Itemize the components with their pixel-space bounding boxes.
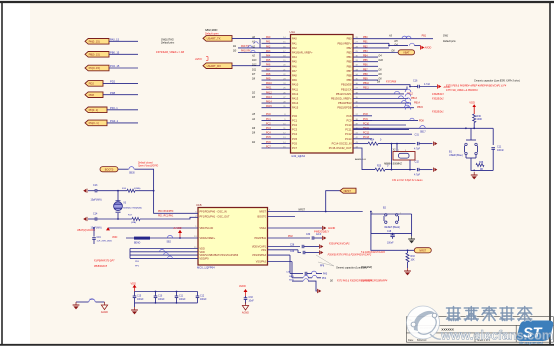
wire vssa agnd [268, 227, 323, 229]
pushbutton B1 [449, 128, 478, 158]
svg-text:F37X PE9 & PA0/PE4+VREF #VREF4: F37X PE9 & PA0/PE4+VREF #VREF4/VB0/VCAP1… [446, 84, 507, 87]
svg-text:PA3/SAR_VREF+: PA3/SAR_VREF+ [292, 51, 313, 55]
svg-text:PA3: PA3 [323, 273, 328, 276]
svg-text:PA15: PA15 [292, 106, 299, 110]
svg-text:PB6: PB6 [347, 64, 352, 68]
wire net PA0..15 [109, 40, 138, 42]
svg-text:PC5: PC5 [292, 137, 298, 141]
svg-text:4.7uF: 4.7uF [424, 83, 431, 86]
svg-text:F373P08: F373P08 [386, 81, 397, 84]
svg-text:PB8: PB8 [347, 74, 352, 78]
ground gnd r33 [404, 268, 411, 275]
svg-text:A2: A2 [251, 45, 256, 48]
svg-text:BEAD: BEAD [134, 241, 141, 244]
svg-text:PC5: PC5 [266, 136, 271, 139]
svg-text:PF[0..1]: PF[0..1] [89, 108, 99, 112]
svg-text:PD1 /PC1/PH1: PD1 /PC1/PH1 [158, 215, 174, 217]
svg-text:A5: A5 [251, 113, 256, 116]
crystal X3 [114, 191, 142, 219]
svg-text:PB15/SPDB: PB15/SPDB [337, 106, 351, 110]
svg-text:AVDD: AVDD [425, 47, 432, 50]
wire PD8 row [353, 119, 418, 121]
wire pd2 row [268, 237, 311, 239]
svg-text:R24: R24 [370, 140, 375, 142]
port connector P1 PA[0..15] [85, 39, 109, 45]
wire net PD8 [103, 94, 138, 96]
svg-text:C15: C15 [137, 295, 142, 297]
svg-text:A0: A0 [251, 36, 256, 39]
svg-text:(N/A): (N/A) [131, 221, 136, 224]
wire boot0 pin stub [268, 216, 296, 218]
svg-text:F302B/Dr1: F302B/Dr1 [432, 111, 444, 114]
svg-text:PB14/PB13: PB14/PB13 [338, 101, 352, 105]
capacitor C19 [92, 227, 112, 244]
svg-text:F302B/Dr3: F302B/Dr3 [432, 93, 444, 96]
svg-text:PC9: PC9 [346, 118, 352, 122]
op IC U1B body [196, 203, 268, 269]
svg-text:C18: C18 [387, 231, 392, 233]
svg-text:0(N/A): 0(N/A) [134, 187, 141, 190]
U1A PC pin wires right [353, 113, 412, 148]
svg-text:VSS: VSS [261, 249, 266, 252]
U1A pin name texts [292, 37, 352, 150]
wire USART_RX to node [232, 65, 260, 67]
svg-text:PB13: PB13 [411, 97, 418, 100]
svg-text:F20X/F42X/VCAP1: F20X/F42X/VCAP1 [329, 242, 350, 245]
svg-text:PB1/VREF+: PB1/VREF+ [337, 41, 352, 45]
svg-text:12nF: 12nF [316, 234, 322, 236]
svg-text:PC10: PC10 [363, 122, 370, 125]
svg-text:C10: C10 [158, 295, 163, 297]
svg-text:PA0: PA0 [266, 36, 271, 39]
svg-text:PC0..15: PC0..15 [110, 64, 120, 68]
svg-text:m32_lqfp64: m32_lqfp64 [291, 154, 306, 158]
svg-text:PC13: PC13 [345, 137, 352, 141]
svg-text:F302B/Dr2: F302B/Dr2 [432, 97, 444, 100]
svg-text:PB0..15: PB0..15 [110, 51, 120, 55]
svg-text:PA13: PA13 [266, 96, 272, 99]
svg-text:VDD: VDD [131, 282, 137, 286]
wire osc out to pin [140, 217, 198, 219]
svg-text:C2B: C2B [286, 271, 291, 273]
svg-text:C12: C12 [200, 295, 205, 297]
svg-text:10pF(N/A): 10pF(N/A) [91, 198, 102, 201]
resistor R24 [368, 142, 378, 145]
resistor R25 [375, 168, 385, 171]
U1A PA pin wires left [251, 36, 291, 108]
wire gnd tie [76, 301, 89, 303]
svg-text:PC8: PC8 [363, 113, 368, 116]
svg-text:PA9: PA9 [292, 78, 297, 82]
ground arrow c32 [434, 168, 438, 172]
power VDD top [469, 100, 476, 114]
capacitor C11 100nF [175, 292, 186, 303]
U1A PC pin wires left [251, 113, 291, 148]
svg-text:PF1/PD1/PH1 - OSC_OUT: PF1/PD1/PH1 - OSC_OUT [200, 216, 230, 219]
svg-text:C30: C30 [306, 234, 311, 236]
svg-text:PC2: PC2 [266, 122, 271, 125]
svg-text:PA2: PA2 [266, 45, 271, 48]
wire hop SB13 [248, 46, 252, 48]
svg-text:PB0: PB0 [363, 36, 368, 39]
ground gnd b2 [411, 234, 413, 236]
svg-text:PC4: PC4 [266, 132, 271, 135]
wire vcap1 row [268, 246, 301, 248]
svg-text:PA7: PA7 [292, 69, 297, 73]
watermark fan logo [407, 306, 442, 339]
capacitor C10 100nF [154, 292, 165, 303]
svg-text:PB11: PB11 [363, 87, 369, 90]
svg-text:VBAT: VBAT [403, 51, 410, 54]
svg-text:VBAT(V)=D/VDD: VBAT(V)=D/VDD [77, 229, 95, 232]
svg-text:PB[0..15]: PB[0..15] [89, 52, 100, 56]
capacitor C12 100nF [196, 292, 207, 303]
svg-text:A+VDD: A+VDD [174, 227, 182, 230]
svg-text:4.7pF: 4.7pF [414, 147, 421, 150]
svg-text:100nF: 100nF [497, 149, 504, 152]
port connector P5 PD8 [85, 92, 103, 98]
svg-text:C32: C32 [415, 160, 420, 163]
svg-text:PA11: PA11 [266, 87, 272, 90]
svg-text:R25: R25 [377, 166, 382, 168]
svg-text:AVDD: AVDD [239, 285, 246, 288]
wire net PC0..15 [109, 67, 138, 69]
svg-text:SB2: SB2 [167, 242, 172, 244]
svg-text:C19: C19 [97, 237, 102, 239]
svg-text:10K: 10K [411, 260, 416, 262]
svg-text:SWJ: SWJ [443, 35, 449, 38]
svg-text:Default pins: Default pins [161, 42, 175, 45]
svg-text:PA10: PA10 [266, 82, 272, 85]
svg-text:PB7: PB7 [363, 68, 368, 71]
svg-text:PA15: PA15 [266, 105, 272, 108]
ferrite bead L1 [134, 237, 150, 240]
svg-text:AGND: AGND [242, 312, 249, 315]
crystal X2 [384, 143, 415, 171]
svg-text:PC12: PC12 [345, 132, 352, 136]
port connector P2 PB[0..15] [85, 52, 109, 58]
svg-text:SB17: SB17 [420, 131, 426, 133]
svg-text:PA1: PA1 [292, 41, 297, 45]
port connector P6 PF[0..1] [85, 107, 107, 113]
svg-text:PA14: PA14 [266, 101, 272, 104]
svg-text:PC8: PC8 [346, 114, 352, 118]
wire net PD2 [103, 82, 138, 84]
svg-text:PB9: PB9 [347, 78, 352, 82]
svg-text:VDD: VDD [469, 100, 475, 104]
svg-text:AVCC: AVCC [194, 57, 202, 61]
svg-text:D12: D12 [252, 64, 257, 67]
svg-text:A4: A4 [251, 118, 256, 121]
svg-text:U1B: U1B [196, 203, 202, 207]
op IC U1A body [290, 30, 354, 158]
svg-text:PA12: PA12 [292, 92, 299, 96]
svg-text:PB8: PB8 [363, 73, 368, 76]
svg-text:PB5: PB5 [347, 60, 352, 64]
wire vcap2 row [268, 249, 299, 251]
wire nrst down [371, 212, 414, 251]
U1A PB pin wires right [353, 35, 433, 109]
svg-text:PB15: PB15 [417, 106, 424, 109]
wire crossover PA10 [238, 52, 291, 54]
svg-text:Default closed: Default closed [138, 161, 153, 164]
ground gnd bank [134, 303, 136, 307]
power AVDD mid [178, 230, 182, 233]
wire VDD bundle [130, 247, 198, 258]
svg-text:PB2: PB2 [347, 46, 352, 50]
svg-text:PB10/D8: PB10/D8 [341, 83, 352, 87]
svg-text:10nF: 10nF [249, 301, 255, 303]
svg-text:PC7: PC7 [266, 145, 271, 148]
svg-text:PB10: PB10 [363, 82, 370, 85]
svg-text:F4/B2G/DB1Y: F4/B2G/DB1Y [314, 230, 330, 233]
svg-text:PA7: PA7 [266, 68, 271, 71]
capacitor C15 100nF [133, 292, 144, 303]
wire NRST riser [326, 191, 340, 212]
wire nrst to reset blk [327, 211, 363, 213]
svg-text:AGND: AGND [101, 311, 108, 314]
svg-text:PA4: PA4 [266, 55, 271, 58]
svg-text:PA4: PA4 [292, 55, 297, 59]
wire PB10/PB11 merge [385, 85, 414, 87]
svg-text:PD2: PD2 [110, 80, 116, 84]
svg-text:ABM8-8.00: ABM8-8.00 [355, 158, 367, 161]
svg-text:PB2: PB2 [363, 45, 368, 48]
svg-text:Open if boot1/GPIO: Open if boot1/GPIO [138, 165, 158, 168]
wire USART_TX to node [232, 37, 260, 39]
svg-text:100nF: 100nF [137, 299, 144, 301]
svg-text:PB5: PB5 [363, 59, 368, 62]
svg-text:PD8: PD8 [89, 93, 95, 97]
svg-text:PD8: PD8 [419, 120, 424, 123]
svg-text:PC3: PC3 [266, 127, 271, 130]
svg-text:PD2: PD2 [288, 235, 293, 238]
wire net PF0..1 [107, 109, 138, 111]
svg-text:VSSA: VSSA [259, 227, 266, 230]
title block text [408, 319, 491, 342]
svg-text:100nF: 100nF [387, 242, 394, 244]
svg-text:VSS/P4/PA3: VSS/P4/PA3 [252, 254, 267, 257]
wire vss rows [268, 254, 291, 256]
wire pf4 row [292, 277, 303, 279]
svg-text:C31 & C32: 6.8pF for L4autu: C31 & C32: 6.8pF for L4autu [392, 179, 423, 182]
connector NRST port [340, 188, 356, 193]
svg-text:PB4: PB4 [363, 55, 368, 58]
svg-text:PC7: PC7 [292, 146, 298, 150]
svg-text:PF0/PD0/PH0 - OSC_IN: PF0/PD0/PH0 - OSC_IN [200, 211, 227, 214]
svg-text:R33: R33 [411, 256, 416, 258]
svg-text:NRST: NRST [344, 189, 352, 193]
svg-text:F373/SAR_VREF+ = D6: F373/SAR_VREF+ = D6 [156, 50, 185, 54]
svg-text:100K: 100K [477, 118, 483, 121]
svg-text:PG[0..1]: PG[0..1] [89, 121, 99, 125]
resistor R30 [473, 114, 476, 123]
svg-text:PA11: PA11 [292, 87, 299, 91]
svg-text:Ceramic capacitor (Low ESR, XX: Ceramic capacitor (Low ESR, XXR+3 ohm) [474, 79, 520, 82]
connector BOOT0 oval [100, 167, 118, 172]
svg-text:www.elecfans.com: www.elecfans.com [440, 327, 553, 342]
svg-text:SB30: SB30 [129, 173, 135, 175]
svg-text:8 & F302RC/F030R8/PF4: 8 & F302RC/F030R8/PF4 [361, 279, 388, 282]
svg-text:4.7pF: 4.7pF [414, 173, 421, 176]
svg-text:VDD: VDD [112, 236, 117, 239]
svg-text:PC14-OSC32_IN: PC14-OSC32_IN [332, 141, 352, 145]
svg-text:PB14: PB14 [414, 102, 421, 105]
svg-text:PB0: PB0 [347, 37, 352, 41]
svg-text:PC12: PC12 [363, 132, 370, 135]
svg-text:PD0 /PC0/PH0: PD0 /PC0/PH0 [158, 211, 174, 213]
wire OSC_IN row [353, 143, 368, 145]
wire sb10 row [292, 280, 303, 282]
svg-text:(Low ESR): (Low ESR) [361, 267, 372, 269]
leader lines [316, 255, 334, 266]
wire net PG0..1 [107, 122, 138, 124]
svg-text:PD2: PD2 [89, 82, 95, 86]
wire cap bank rails [135, 291, 198, 293]
svg-text:100nF: 100nF [158, 299, 165, 301]
resistor R33 [407, 250, 409, 253]
svg-text:PC0: PC0 [292, 114, 298, 118]
svg-text:C33: C33 [249, 297, 254, 299]
svg-text:D11: D11 [252, 68, 257, 71]
connector NRST oval [414, 248, 431, 253]
svg-text:PA6: PA6 [266, 64, 271, 67]
svg-text:7: 7 [398, 150, 399, 152]
wire osc32 in row [88, 190, 95, 192]
svg-text:PA10 RX: PA10 RX [241, 49, 251, 52]
svg-text:5 & F20X/F42X/VCAP2: 5 & F20X/F42X/VCAP2 [361, 251, 386, 254]
svg-text:PB3: PB3 [347, 51, 352, 55]
connector VBAT oval [398, 50, 415, 55]
svg-text:PB1: PB1 [422, 34, 427, 37]
wire NRST net [353, 127, 493, 129]
svg-text:C31: C31 [415, 134, 420, 137]
svg-text:D10: D10 [379, 59, 384, 62]
svg-text:PA13: PA13 [292, 97, 299, 101]
svg-text:PC6: PC6 [292, 141, 298, 145]
capacitor C31 [414, 134, 433, 151]
svg-text:B438(32.768)(N/A): B438(32.768)(N/A) [123, 207, 142, 210]
svg-text:R38: R38 [479, 162, 484, 164]
svg-text:Default pins: Default pins [443, 40, 456, 43]
note F372B annotations [432, 93, 444, 114]
svg-text:PC1: PC1 [266, 118, 271, 121]
wire hop SB2 [167, 235, 172, 238]
svg-text:VBAT/VLCD: VBAT/VLCD [200, 227, 214, 230]
svg-text:PF6: PF6 [320, 266, 325, 268]
wire nrst stub [268, 211, 328, 213]
capacitor C33 10nF [244, 296, 255, 304]
power AVDD arrow C16 [438, 84, 442, 88]
port connector USART_TX [203, 36, 232, 42]
capacitor C16 [413, 80, 437, 89]
wire osc in to pin [135, 190, 154, 192]
svg-text:PB7: PB7 [347, 69, 352, 73]
svg-text:PC11: PC11 [345, 128, 352, 132]
svg-text:A3: A3 [388, 35, 393, 38]
svg-text:C28: C28 [290, 244, 295, 246]
svg-text:PC13: PC13 [363, 136, 370, 139]
svg-text:PB12/VCAP1: PB12/VCAP1 [336, 92, 352, 96]
capacitor C32 [414, 160, 433, 176]
svg-text:PA8: PA8 [292, 74, 297, 78]
wire boot0 [118, 168, 129, 170]
svg-text:100nF: 100nF [200, 299, 207, 301]
svg-text:PB9: PB9 [363, 78, 368, 81]
svg-text:PD2/PB11: PD2/PB11 [255, 237, 267, 240]
svg-text:NRST: NRST [419, 249, 426, 252]
svg-text:RESET (Black): RESET (Black) [385, 227, 401, 229]
svg-text:PC15-OSC32_OUT: PC15-OSC32_OUT [329, 146, 352, 150]
svg-text:PC2: PC2 [292, 123, 298, 127]
svg-text:PA3: PA3 [266, 50, 271, 53]
svg-text:VDDA/VREF+: VDDA/VREF+ [200, 237, 216, 240]
ground agnd tie [101, 302, 108, 314]
svg-text:PA1: PA1 [266, 41, 271, 44]
svg-text:USART_TX: USART_TX [207, 37, 221, 41]
svg-text:PA6: PA6 [292, 64, 297, 68]
capacitor C11 [491, 145, 504, 170]
ground arrow c14 [83, 217, 87, 221]
wire PB1 step [389, 43, 408, 45]
svg-text:PA5: PA5 [266, 59, 271, 62]
svg-text:PB1: PB1 [363, 41, 368, 44]
svg-text:NRST: NRST [259, 211, 266, 214]
pushbutton B2 [371, 206, 412, 233]
svg-text:F37X SD_VREF+ & PD0/PD1: F37X SD_VREF+ & PD0/PD1 [446, 89, 478, 92]
ground gnd tie [73, 302, 80, 309]
svg-text:A2: A2 [251, 55, 256, 58]
svg-text:PG0..1: PG0..1 [110, 119, 119, 123]
wire crossover PA9 [238, 47, 291, 49]
svg-text:MCU_LQFP64: MCU_LQFP64 [197, 266, 215, 270]
svg-text:C29: C29 [290, 251, 295, 253]
svg-text:PA[0..15]: PA[0..15] [89, 39, 100, 43]
svg-text:PD8: PD8 [110, 91, 116, 95]
svg-text:ABM8-8.000MHZ: ABM8-8.000MHZ [384, 162, 402, 165]
resistor R16 [127, 189, 135, 192]
svg-text:BOOT0: BOOT0 [258, 216, 267, 219]
svg-text:PC4: PC4 [292, 132, 298, 136]
svg-text:C14: C14 [93, 212, 98, 215]
svg-text:PA8: PA8 [266, 73, 271, 76]
wire vbat [108, 227, 198, 229]
svg-text:Default open: Default open [205, 32, 219, 35]
resistor R17 [132, 217, 140, 220]
resistor R38 [470, 158, 472, 161]
svg-text:1uF_X5R_0805: 1uF_X5R_0805 [97, 240, 113, 242]
wire OSC_OUT row [353, 148, 375, 170]
wire osc32 out row [88, 218, 95, 220]
wire bundle PB12-PB15 [353, 91, 424, 109]
svg-text:PB13/SD_VREF+: PB13/SD_VREF+ [331, 97, 352, 101]
svg-text:VSS/PA3: VSS/PA3 [256, 261, 267, 264]
svg-text:PC[0..15]: PC[0..15] [89, 66, 100, 70]
svg-text:PC0: PC0 [266, 113, 271, 116]
port connector P3 PC[0..15] [85, 65, 109, 71]
svg-text:U1A: U1A [290, 30, 296, 34]
svg-text:C11: C11 [497, 145, 502, 148]
capacitor C13 [91, 184, 102, 201]
svg-text:D13: D13 [252, 59, 257, 62]
svg-text:PA2: PA2 [292, 46, 297, 50]
wire pa3 row [290, 273, 303, 275]
ground arrow c13 [83, 189, 87, 193]
ground agnd bottom [242, 303, 249, 315]
svg-text:PC10: PC10 [345, 123, 352, 127]
svg-text:PF4: PF4 [322, 278, 327, 280]
svg-text:NRST: NRST [299, 208, 306, 211]
